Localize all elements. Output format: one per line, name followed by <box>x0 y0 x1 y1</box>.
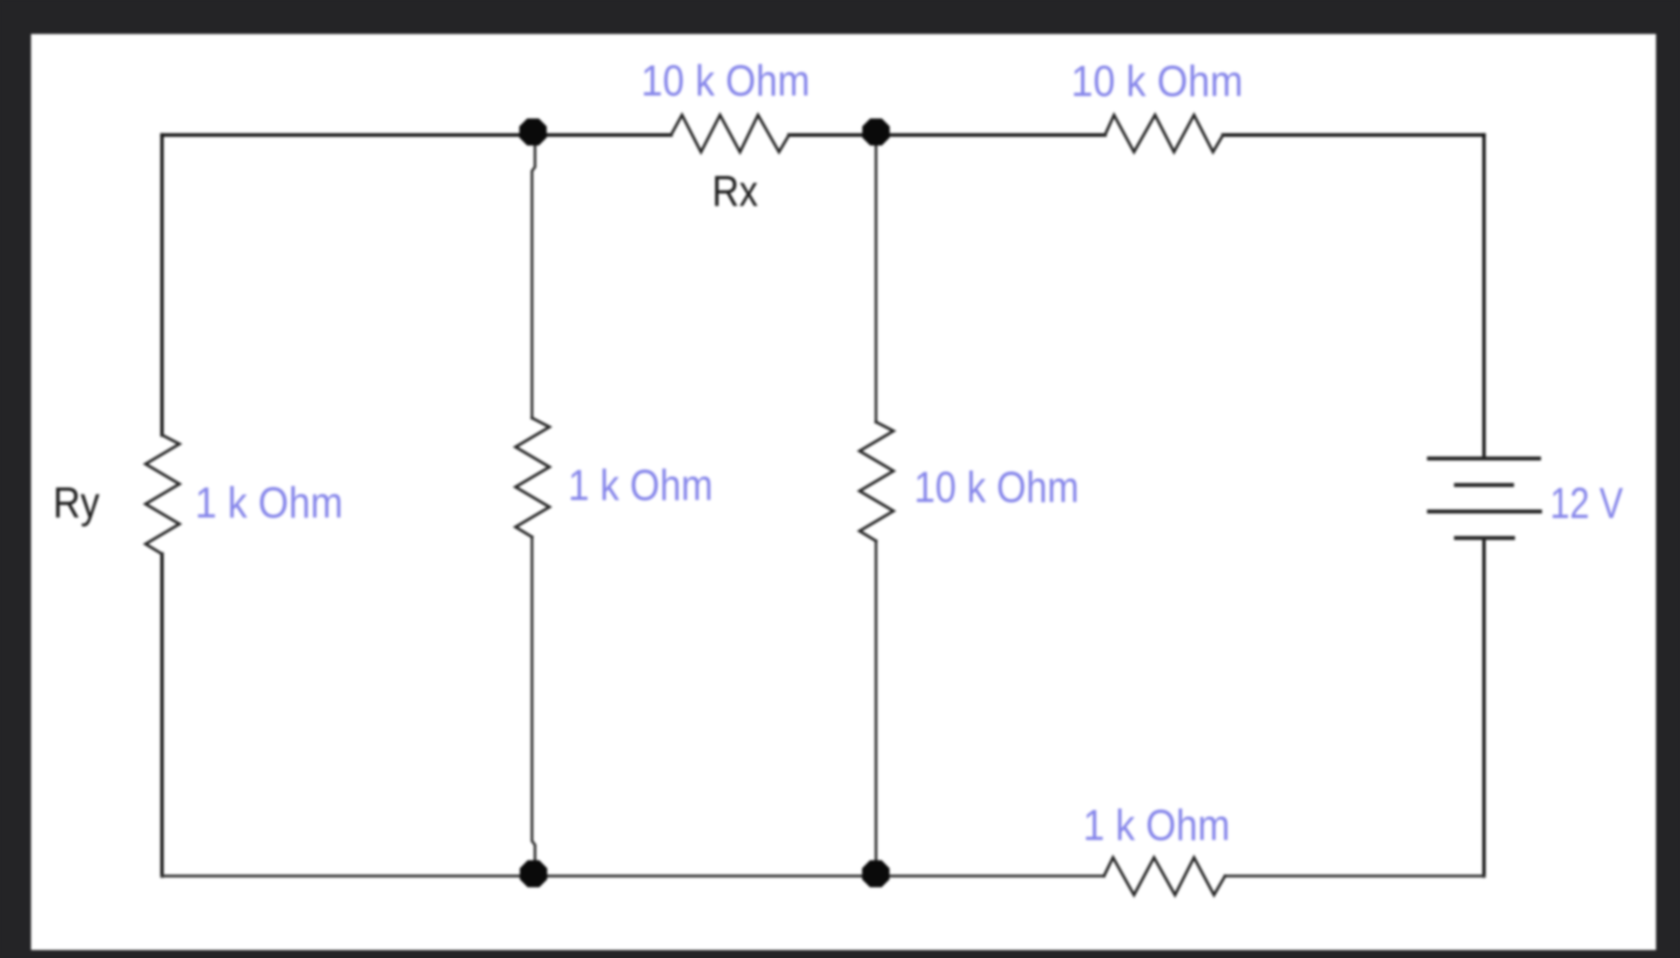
svg-text:1 k Ohm: 1 k Ohm <box>195 480 343 528</box>
svg-text:1 k Ohm: 1 k Ohm <box>1083 802 1230 850</box>
svg-text:10 k Ohm: 10 k Ohm <box>641 58 810 106</box>
svg-text:10 k Ohm: 10 k Ohm <box>1071 58 1243 106</box>
svg-text:Rx: Rx <box>712 168 758 216</box>
svg-text:1 k Ohm: 1 k Ohm <box>568 462 713 510</box>
svg-text:10 k Ohm: 10 k Ohm <box>914 464 1079 512</box>
svg-text:Ry: Ry <box>53 480 100 528</box>
svg-text:12 V: 12 V <box>1550 480 1623 528</box>
